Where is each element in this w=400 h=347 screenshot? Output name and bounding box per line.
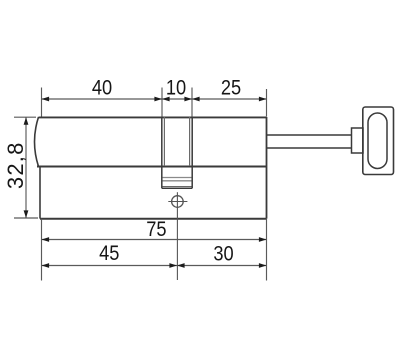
svg-text:75: 75 xyxy=(146,218,166,241)
svg-text:40: 40 xyxy=(92,76,112,99)
svg-text:32,8: 32,8 xyxy=(3,141,28,189)
svg-text:45: 45 xyxy=(99,242,119,265)
svg-text:10: 10 xyxy=(166,76,186,99)
svg-text:25: 25 xyxy=(221,76,241,99)
svg-text:30: 30 xyxy=(213,242,233,265)
